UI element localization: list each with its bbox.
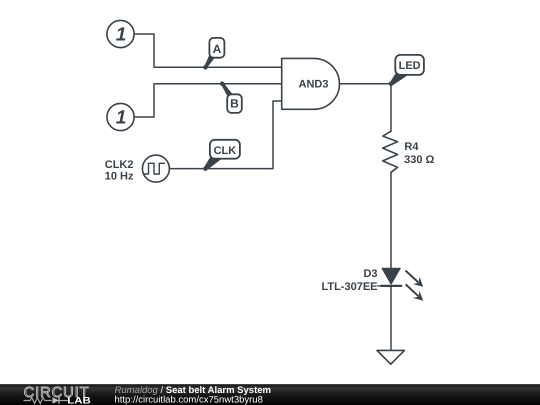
svg-text:D3: D3 bbox=[363, 268, 377, 280]
label box A bbox=[209, 38, 224, 58]
svg-text:CLK: CLK bbox=[214, 145, 237, 157]
node CLK flag bbox=[203, 140, 240, 171]
pointer wedge bbox=[204, 157, 222, 170]
svg-text:http://circuitlab.com/cx75nwt3: http://circuitlab.com/cx75nwt3byru8 bbox=[115, 394, 263, 405]
square wave symbol bbox=[145, 163, 165, 174]
label box LED bbox=[395, 55, 424, 75]
digital logic source V2 (bottom, constant 1) bbox=[107, 103, 134, 130]
node B flag bbox=[220, 82, 242, 113]
pointer wedge bbox=[204, 56, 215, 69]
wire resistor R4 to LED D3 bbox=[390, 172, 392, 268]
label box CLK bbox=[210, 140, 240, 159]
resistor R4 bbox=[383, 131, 435, 172]
wire gate output to node LED bbox=[340, 83, 392, 85]
source circle bbox=[107, 20, 134, 47]
pointer wedge bbox=[221, 83, 233, 97]
svg-text:330 Ω: 330 Ω bbox=[404, 154, 434, 166]
svg-text:CLK2: CLK2 bbox=[105, 159, 134, 171]
svg-text:R4: R4 bbox=[404, 141, 419, 153]
pointer wedge bbox=[390, 74, 409, 86]
svg-text:1: 1 bbox=[116, 24, 127, 45]
wire B (source 2 to gate input B) bbox=[134, 84, 282, 117]
source circle bbox=[107, 103, 134, 130]
LED D3 bbox=[321, 268, 423, 301]
svg-text:AND3: AND3 bbox=[299, 79, 329, 91]
svg-text:1: 1 bbox=[116, 107, 127, 128]
wire A (source 1 to gate input A) bbox=[134, 34, 282, 67]
LED light arrow 1 bbox=[406, 271, 418, 282]
CircuitLab logo bbox=[24, 385, 91, 405]
wire CLK (clock to gate input C) bbox=[169, 101, 281, 169]
label pointer line bbox=[378, 285, 382, 287]
svg-text:10 Hz: 10 Hz bbox=[105, 170, 134, 182]
junction dot on node B bbox=[220, 82, 225, 87]
svg-text:A: A bbox=[213, 42, 222, 56]
svg-text:LED: LED bbox=[399, 60, 421, 72]
svg-text:LAB: LAB bbox=[67, 395, 91, 405]
junction dot on node CLK bbox=[203, 166, 208, 171]
LED anode triangle bbox=[382, 268, 400, 284]
node A flag bbox=[203, 38, 224, 70]
digital logic source V1 (top, constant 1) bbox=[107, 20, 134, 47]
AND gate AND3 bbox=[282, 58, 340, 109]
junction dot on node LED bbox=[389, 82, 394, 87]
footer bar bbox=[0, 384, 540, 405]
junction dot on node A bbox=[203, 65, 208, 70]
clock source CLK2 bbox=[105, 155, 170, 182]
LED light arrow 2 bbox=[406, 285, 418, 296]
clock circle bbox=[142, 155, 169, 182]
label box B bbox=[227, 94, 242, 113]
ground bbox=[377, 350, 404, 364]
wire node LED to resistor R4 bbox=[390, 84, 392, 131]
gate body bbox=[282, 58, 340, 109]
wire LED D3 to ground bbox=[390, 286, 392, 350]
svg-text:LTL-307EE: LTL-307EE bbox=[321, 281, 377, 293]
svg-text:B: B bbox=[230, 96, 239, 110]
LED cathode bar bbox=[381, 285, 401, 287]
resistor zigzag body bbox=[383, 131, 398, 172]
node LED flag bbox=[389, 55, 424, 86]
